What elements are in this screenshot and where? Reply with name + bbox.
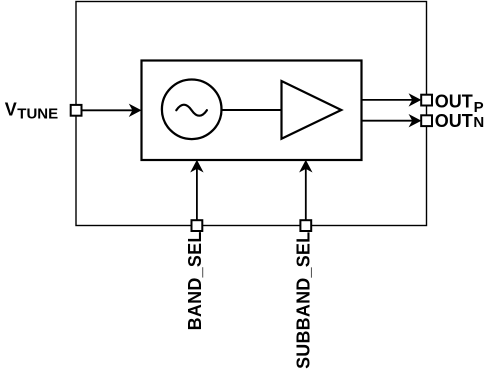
arrowhead OUTN [410,115,421,126]
svg-text:BAND_SEL: BAND_SEL [185,231,205,330]
svg-text:V: V [5,99,17,119]
wire BAND_SEL [196,169,198,221]
svg-text:N: N [473,114,484,131]
wire OUTN [362,120,413,122]
sine wave [176,105,207,116]
outer rectangle (device boundary) [76,2,427,226]
pin OUTN square [421,115,432,126]
wire VTUNE [82,109,134,111]
pin SUBBAND_SEL square [300,220,311,231]
arrowhead VTUNE [130,105,141,116]
arrowhead BAND_SEL [191,161,202,172]
svg-text:OUT: OUT [435,91,473,111]
oscillator U1 circle [162,80,222,140]
inner block (VCO core) [142,61,362,161]
pin VTUNE square [71,105,82,116]
wire OUTP [362,99,413,101]
label OUTP [435,91,484,115]
wire oscillator to amplifier [222,109,282,111]
pin OUTP square [421,95,432,106]
svg-text:OUT: OUT [435,111,473,131]
wire SUBBAND_SEL [305,169,307,221]
amplifier triangle [282,81,342,139]
arrowhead SUBBAND_SEL [300,161,311,172]
label VTUNE [5,99,58,122]
label OUTN [435,111,484,131]
svg-text:SUBBAND_SEL: SUBBAND_SEL [293,232,313,369]
pin BAND_SEL square [192,220,203,231]
arrowhead OUTP [410,94,421,105]
svg-text:TUNE: TUNE [17,106,58,123]
